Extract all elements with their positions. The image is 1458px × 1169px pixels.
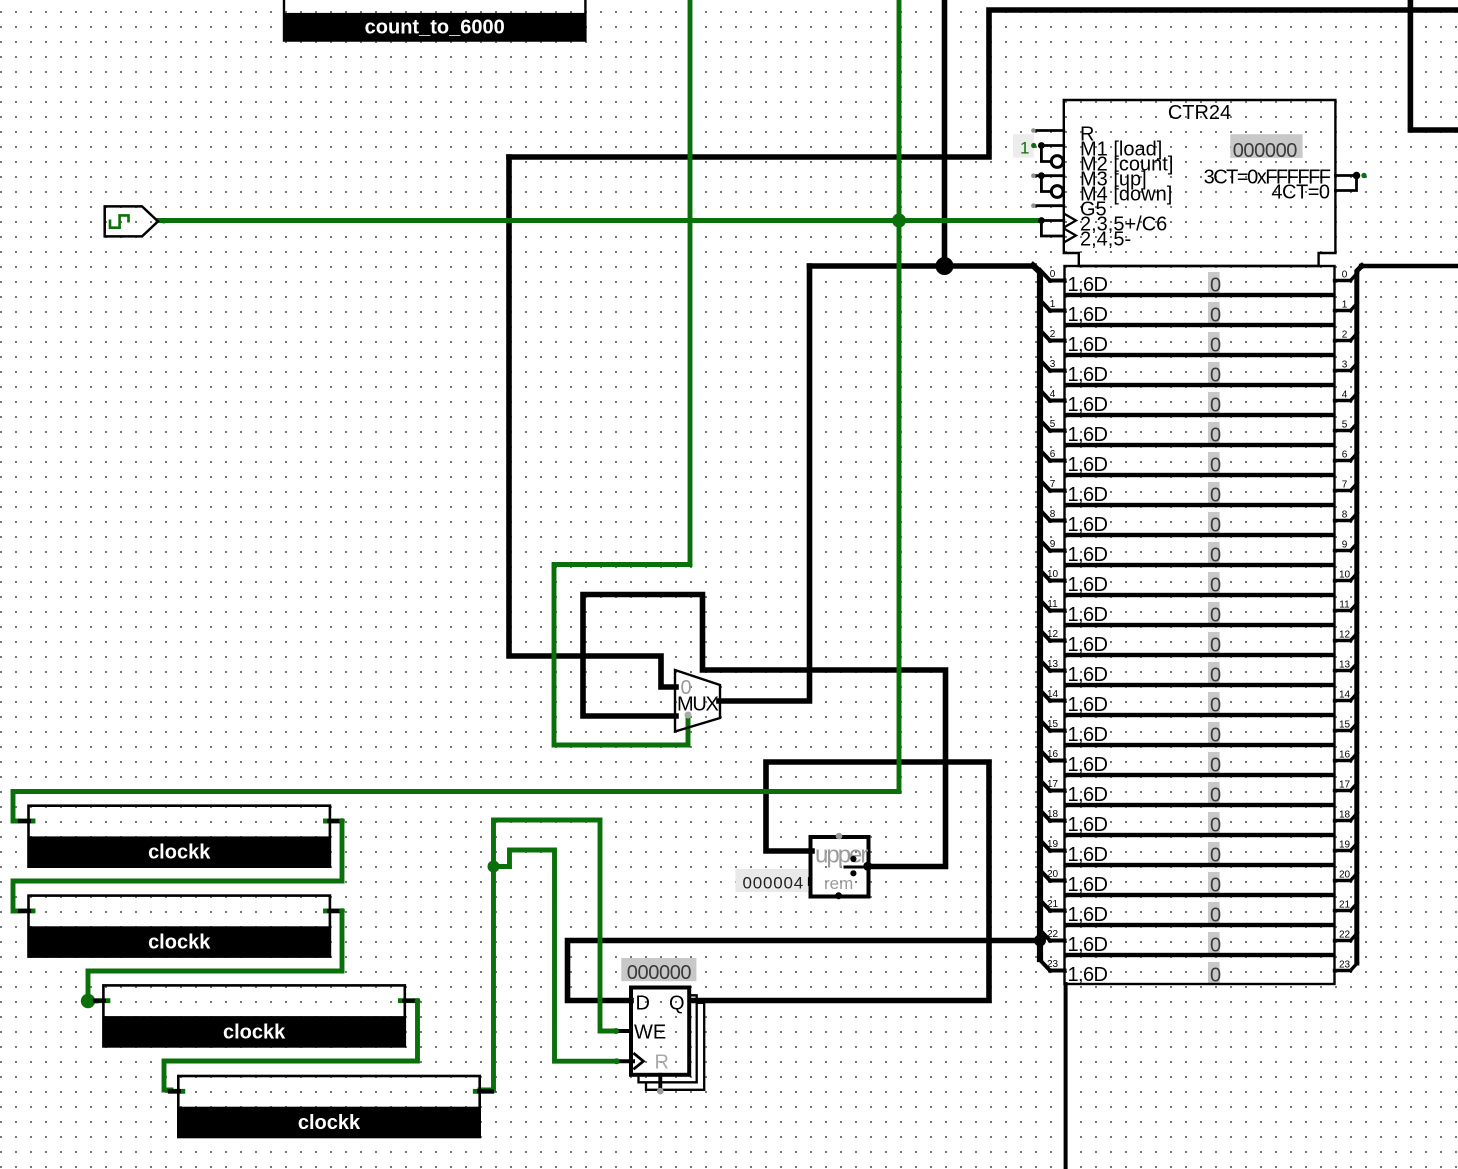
svg-text:1,6D: 1,6D [1068, 964, 1108, 986]
svg-text:clockk: clockk [298, 1112, 361, 1134]
svg-text:17: 17 [1339, 780, 1351, 791]
svg-text:1,6D: 1,6D [1068, 814, 1108, 836]
svg-text:0: 0 [1210, 815, 1221, 837]
svg-text:13: 13 [1339, 660, 1351, 671]
svg-text:0: 0 [1210, 455, 1221, 477]
svg-text:13: 13 [1047, 659, 1059, 670]
svg-text:3: 3 [1050, 359, 1056, 370]
svg-text:0: 0 [1342, 270, 1348, 281]
svg-text:0: 0 [1210, 425, 1221, 447]
svg-text:0: 0 [1210, 935, 1221, 957]
svg-text:1,6D: 1,6D [1068, 364, 1108, 386]
svg-text:0: 0 [1210, 545, 1221, 567]
svg-text:1: 1 [1020, 139, 1029, 158]
svg-text:0: 0 [1210, 365, 1221, 387]
svg-text:16: 16 [1047, 749, 1059, 760]
svg-text:8: 8 [1050, 509, 1056, 520]
svg-text:0: 0 [1210, 875, 1221, 897]
svg-text:upper: upper [815, 842, 868, 869]
svg-text:0: 0 [1210, 305, 1221, 327]
svg-text:R: R [655, 1051, 669, 1073]
svg-text:1,6D: 1,6D [1068, 604, 1108, 626]
svg-text:0: 0 [1050, 269, 1056, 280]
svg-text:19: 19 [1047, 839, 1059, 850]
svg-text:1,6D: 1,6D [1068, 784, 1108, 806]
svg-text:1,6D: 1,6D [1068, 484, 1108, 506]
svg-text:9: 9 [1050, 539, 1056, 550]
svg-text:9: 9 [1342, 540, 1348, 551]
svg-text:15: 15 [1047, 719, 1059, 730]
svg-text:0: 0 [1210, 605, 1221, 627]
svg-text:3: 3 [1342, 360, 1348, 371]
svg-text:21: 21 [1339, 900, 1351, 911]
svg-text:15: 15 [1339, 720, 1351, 731]
svg-text:1,6D: 1,6D [1068, 424, 1108, 446]
svg-text:7: 7 [1050, 479, 1056, 490]
svg-text:MUX: MUX [677, 694, 719, 716]
svg-text:7: 7 [1342, 480, 1348, 491]
svg-text:0: 0 [1210, 905, 1221, 927]
svg-text:5: 5 [1342, 420, 1348, 431]
svg-text:1,6D: 1,6D [1068, 904, 1108, 926]
svg-text:6: 6 [1050, 449, 1056, 460]
svg-text:0: 0 [1210, 575, 1221, 597]
svg-text:2: 2 [1050, 329, 1056, 340]
svg-text:20: 20 [1047, 869, 1059, 880]
svg-text:8: 8 [1342, 510, 1348, 521]
svg-text:D: D [636, 993, 650, 1015]
svg-text:1,6D: 1,6D [1068, 544, 1108, 566]
svg-text:1: 1 [1342, 300, 1348, 311]
svg-text:1,6D: 1,6D [1068, 664, 1108, 686]
svg-text:1,6D: 1,6D [1068, 514, 1108, 536]
svg-text:4: 4 [1342, 390, 1348, 401]
svg-text:1,6D: 1,6D [1068, 634, 1108, 656]
svg-text:0: 0 [1210, 785, 1221, 807]
svg-text:rem: rem [824, 874, 853, 893]
svg-text:11: 11 [1339, 600, 1350, 611]
svg-text:0: 0 [1210, 635, 1221, 657]
svg-text:6: 6 [1342, 450, 1348, 461]
svg-text:count_to_6000: count_to_6000 [365, 17, 505, 39]
svg-text:20: 20 [1339, 870, 1351, 881]
svg-text:0: 0 [1210, 845, 1221, 867]
svg-text:23: 23 [1047, 959, 1059, 970]
svg-text:1,6D: 1,6D [1068, 844, 1108, 866]
svg-text:clockk: clockk [223, 1021, 286, 1043]
svg-text:1,6D: 1,6D [1068, 874, 1108, 896]
svg-text:1,6D: 1,6D [1068, 574, 1108, 596]
svg-text:0: 0 [1210, 395, 1221, 417]
svg-text:1,6D: 1,6D [1068, 694, 1108, 716]
svg-text:2: 2 [1342, 330, 1348, 341]
svg-text:16: 16 [1339, 750, 1351, 761]
svg-text:17: 17 [1047, 779, 1059, 790]
svg-text:Q: Q [669, 993, 685, 1015]
svg-text:000000: 000000 [1233, 140, 1298, 162]
svg-text:19: 19 [1339, 840, 1351, 851]
svg-text:000000: 000000 [627, 962, 692, 984]
svg-text:12: 12 [1047, 629, 1059, 640]
svg-text:2,4,5-: 2,4,5- [1080, 229, 1131, 251]
svg-text:18: 18 [1047, 809, 1059, 820]
svg-text:000004: 000004 [743, 874, 805, 893]
svg-text:22: 22 [1047, 929, 1059, 940]
svg-text:21: 21 [1047, 899, 1059, 910]
svg-text:1,6D: 1,6D [1068, 304, 1108, 326]
svg-text:clockk: clockk [148, 932, 211, 954]
svg-text:22: 22 [1339, 930, 1351, 941]
svg-text:1,6D: 1,6D [1068, 394, 1108, 416]
svg-text:5: 5 [1050, 419, 1056, 430]
svg-text:0: 0 [1210, 755, 1221, 777]
svg-text:11: 11 [1047, 599, 1058, 610]
svg-text:1,6D: 1,6D [1068, 454, 1108, 476]
svg-text:1,6D: 1,6D [1068, 334, 1108, 356]
svg-text:1,6D: 1,6D [1068, 724, 1108, 746]
svg-text:12: 12 [1339, 630, 1351, 641]
svg-text:4CT=0: 4CT=0 [1271, 182, 1329, 204]
svg-text:1: 1 [1050, 299, 1056, 310]
svg-text:WE: WE [634, 1021, 666, 1043]
svg-text:CTR24: CTR24 [1168, 102, 1231, 124]
svg-text:0: 0 [1210, 665, 1221, 687]
svg-text:clockk: clockk [148, 842, 211, 864]
svg-text:18: 18 [1339, 810, 1351, 821]
svg-text:1,6D: 1,6D [1068, 934, 1108, 956]
svg-text:0: 0 [1210, 965, 1221, 987]
svg-text:10: 10 [1047, 569, 1059, 580]
svg-text:1,6D: 1,6D [1068, 274, 1108, 296]
svg-text:14: 14 [1339, 690, 1351, 701]
svg-text:1,6D: 1,6D [1068, 754, 1108, 776]
svg-text:23: 23 [1339, 960, 1351, 971]
svg-text:0: 0 [1210, 695, 1221, 717]
svg-text:4: 4 [1050, 389, 1056, 400]
svg-text:14: 14 [1047, 689, 1059, 700]
svg-text:0: 0 [1210, 335, 1221, 357]
svg-text:10: 10 [1339, 570, 1351, 581]
svg-text:0: 0 [1210, 275, 1221, 297]
svg-text:0: 0 [1210, 515, 1221, 537]
svg-text:0: 0 [1210, 485, 1221, 507]
svg-text:0: 0 [1210, 725, 1221, 747]
